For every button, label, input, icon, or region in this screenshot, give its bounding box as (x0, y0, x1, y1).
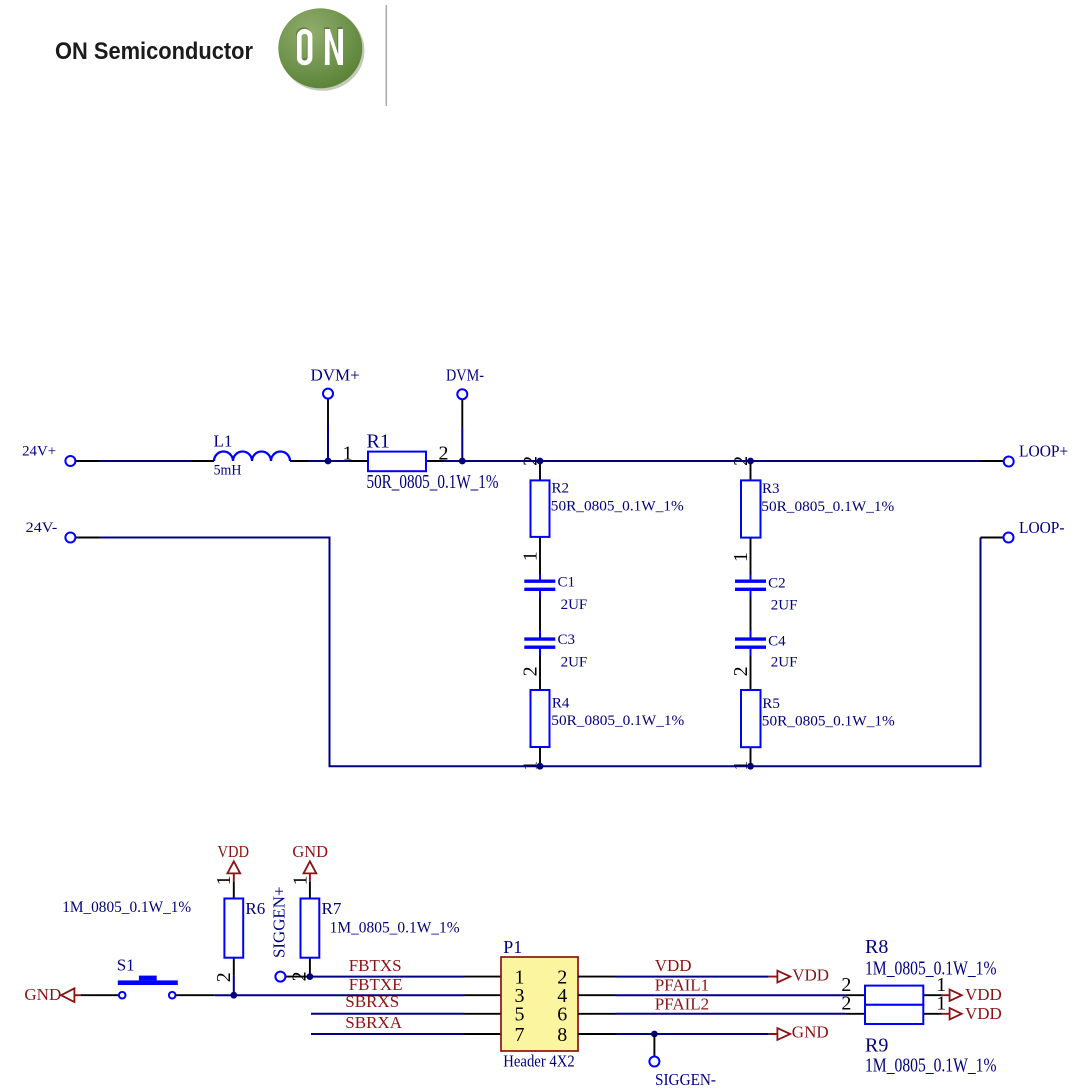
svg-text:LOOP+: LOOP+ (1019, 442, 1068, 461)
svg-text:50R_0805_0.1W_1%: 50R_0805_0.1W_1% (367, 471, 499, 493)
svg-text:2: 2 (439, 443, 449, 465)
svg-text:VDD: VDD (965, 985, 1002, 1004)
svg-text:SIGGEN+: SIGGEN+ (270, 887, 289, 959)
svg-text:1M_0805_0.1W_1%: 1M_0805_0.1W_1% (865, 1055, 997, 1077)
svg-text:VDD: VDD (655, 956, 692, 975)
svg-text:2UF: 2UF (561, 597, 588, 613)
svg-text:50R_0805_0.1W_1%: 50R_0805_0.1W_1% (551, 499, 684, 515)
svg-text:1M_0805_0.1W_1%: 1M_0805_0.1W_1% (865, 958, 997, 980)
svg-text:Header 4X2: Header 4X2 (503, 1051, 574, 1070)
svg-text:1: 1 (289, 875, 311, 885)
svg-text:GND: GND (24, 985, 61, 1004)
svg-text:R3: R3 (762, 481, 780, 497)
svg-text:FBTXS: FBTXS (349, 956, 402, 975)
svg-text:2: 2 (213, 972, 235, 982)
svg-text:C3: C3 (558, 632, 576, 648)
svg-text:2: 2 (841, 993, 851, 1015)
svg-text:5: 5 (515, 1004, 525, 1026)
svg-text:6: 6 (557, 1004, 567, 1026)
svg-text:50R_0805_0.1W_1%: 50R_0805_0.1W_1% (761, 499, 894, 515)
svg-text:DVM+: DVM+ (311, 366, 360, 385)
svg-text:R6: R6 (245, 899, 265, 918)
svg-text:ON Semiconductor: ON Semiconductor (55, 38, 253, 65)
svg-text:1: 1 (213, 875, 235, 885)
svg-text:R5: R5 (762, 696, 780, 712)
svg-text:24V-: 24V- (26, 520, 58, 536)
svg-text:GND: GND (292, 842, 328, 861)
svg-text:R7: R7 (322, 899, 342, 918)
svg-text:VDD: VDD (792, 966, 829, 985)
svg-text:2: 2 (519, 666, 541, 676)
svg-text:2UF: 2UF (771, 655, 798, 671)
svg-text:24V+: 24V+ (22, 444, 56, 460)
svg-text:SIGGEN-: SIGGEN- (655, 1070, 716, 1089)
svg-text:S1: S1 (117, 956, 135, 975)
svg-text:2UF: 2UF (561, 655, 588, 671)
svg-text:5mH: 5mH (214, 463, 242, 479)
svg-text:R1: R1 (367, 431, 390, 453)
svg-text:C4: C4 (768, 634, 786, 650)
svg-text:1: 1 (936, 993, 946, 1015)
svg-text:7: 7 (515, 1024, 525, 1046)
svg-text:50R_0805_0.1W_1%: 50R_0805_0.1W_1% (762, 714, 895, 730)
svg-text:GND: GND (792, 1022, 829, 1041)
svg-text:1: 1 (730, 552, 752, 562)
svg-text:R4: R4 (552, 696, 570, 712)
svg-text:LOOP-: LOOP- (1019, 518, 1065, 537)
svg-text:2: 2 (730, 666, 752, 676)
svg-text:VDD: VDD (965, 1004, 1002, 1023)
svg-text:1: 1 (519, 551, 541, 561)
svg-text:PFAIL1: PFAIL1 (655, 976, 709, 995)
svg-text:8: 8 (557, 1024, 567, 1046)
svg-text:PFAIL2: PFAIL2 (655, 995, 709, 1014)
svg-text:2UF: 2UF (771, 598, 798, 614)
svg-text:50R_0805_0.1W_1%: 50R_0805_0.1W_1% (551, 713, 684, 729)
svg-text:1M_0805_0.1W_1%: 1M_0805_0.1W_1% (62, 899, 191, 916)
svg-text:SBRXS: SBRXS (345, 992, 399, 1011)
svg-text:1M_0805_0.1W_1%: 1M_0805_0.1W_1% (330, 920, 460, 937)
svg-text:L1: L1 (214, 432, 233, 451)
svg-text:R9: R9 (865, 1035, 888, 1057)
svg-text:R8: R8 (865, 936, 888, 958)
svg-text:1: 1 (343, 443, 353, 465)
svg-text:P1: P1 (503, 937, 522, 957)
svg-text:DVM-: DVM- (446, 366, 484, 385)
svg-text:C2: C2 (768, 576, 786, 592)
svg-text:C1: C1 (558, 574, 576, 590)
svg-text:SBRXA: SBRXA (345, 1013, 402, 1032)
svg-text:VDD: VDD (218, 842, 250, 861)
svg-text:R2: R2 (552, 481, 570, 497)
